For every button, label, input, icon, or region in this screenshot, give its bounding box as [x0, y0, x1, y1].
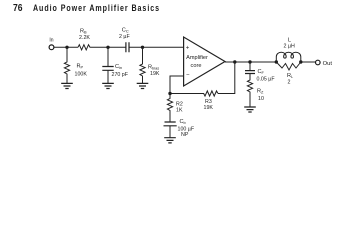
- svg-text:In: In: [49, 38, 53, 44]
- svg-text:19K: 19K: [204, 105, 214, 111]
- svg-text:CC: CC: [122, 28, 129, 34]
- svg-text:CF: CF: [258, 69, 265, 75]
- svg-text:2 µF: 2 µF: [119, 34, 130, 40]
- svg-text:1K: 1K: [176, 108, 183, 114]
- svg-text:Cb: Cb: [180, 119, 186, 125]
- svg-text:RP: RP: [77, 64, 84, 70]
- svg-text:100K: 100K: [75, 72, 88, 78]
- svg-text:RL: RL: [287, 73, 294, 79]
- svg-text:RB: RB: [80, 29, 87, 35]
- svg-text:L: L: [288, 38, 291, 44]
- svg-text:Out: Out: [323, 61, 333, 67]
- svg-text:Amplifier: Amplifier: [186, 55, 208, 61]
- svg-text:10: 10: [258, 96, 264, 102]
- svg-text:2.2K: 2.2K: [79, 35, 90, 41]
- svg-text:270 pF: 270 pF: [112, 72, 129, 78]
- svg-text:NP: NP: [181, 132, 189, 138]
- svg-text:2: 2: [288, 80, 291, 86]
- svg-text:76: 76: [13, 3, 23, 14]
- svg-text:19K: 19K: [150, 71, 160, 77]
- svg-text:2 µH: 2 µH: [284, 44, 295, 50]
- svg-text:0.05 µF: 0.05 µF: [257, 77, 276, 83]
- svg-text:core: core: [191, 63, 202, 69]
- svg-text:Audio Power Amplifier Basics: Audio Power Amplifier Basics: [33, 3, 160, 13]
- svg-text:−: −: [186, 73, 190, 79]
- svg-text:Rbias: Rbias: [148, 65, 159, 71]
- svg-text:Cin: Cin: [115, 64, 122, 70]
- svg-text:RZ: RZ: [257, 89, 264, 95]
- svg-text:+: +: [186, 46, 190, 52]
